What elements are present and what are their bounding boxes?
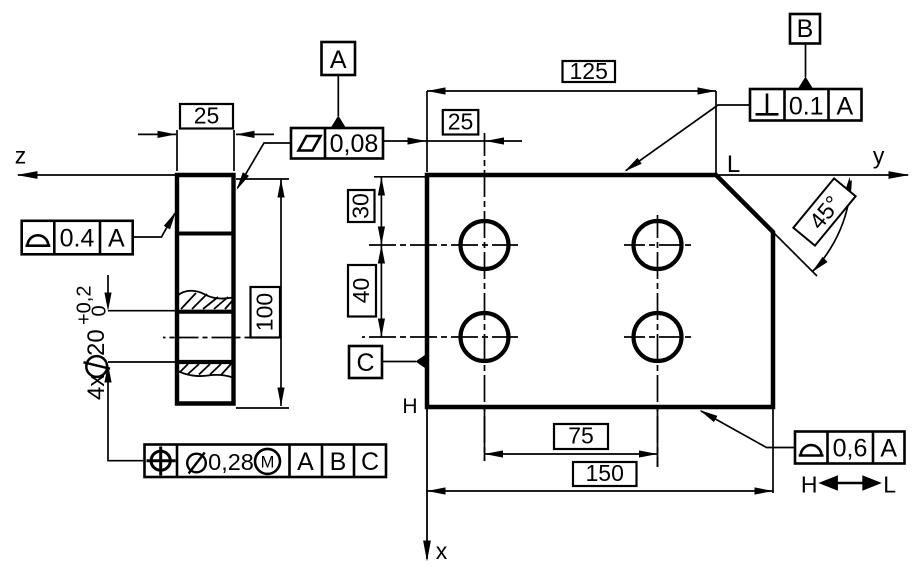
z axis [18, 174, 177, 176]
dim 150 [427, 490, 773, 492]
dim 125 [427, 90, 716, 92]
horizontal centerline row 1 left [368, 244, 518, 246]
hole top-right [634, 221, 682, 269]
dim 25 left view [138, 133, 176, 135]
svg-text:0.1: 0.1 [789, 93, 824, 121]
svg-text:C: C [361, 448, 379, 476]
svg-text:0,6: 0,6 [833, 435, 868, 463]
chamfer extension line [773, 232, 817, 276]
svg-text:125: 125 [570, 58, 608, 84]
svg-text:40: 40 [348, 278, 374, 304]
hole edge upper (section) [177, 310, 234, 314]
svg-text:20: 20 [83, 329, 110, 356]
H - L legend [801, 472, 896, 498]
break line lower (freehand) [177, 371, 233, 378]
datum C leader + triangle on left face of front view [382, 361, 416, 363]
hatching upper band [181, 293, 233, 309]
y axis [716, 174, 908, 176]
svg-text:75: 75 [568, 423, 594, 449]
svg-text:C: C [356, 349, 374, 377]
svg-text:0,28: 0,28 [208, 449, 254, 475]
svg-text:25: 25 [448, 109, 474, 135]
flatness leader to left view right face [238, 143, 292, 188]
svg-text:B: B [330, 448, 347, 476]
left view rectangle outline [177, 175, 234, 404]
svg-text:M: M [261, 454, 275, 472]
svg-text:A: A [836, 93, 853, 121]
x axis [426, 407, 428, 559]
svg-text:150: 150 [586, 460, 624, 486]
svg-text:0.4: 0.4 [60, 225, 95, 253]
svg-text:z: z [15, 143, 27, 169]
profile frame 0,6 A (bottom right) [795, 432, 905, 464]
datum C box [349, 346, 382, 378]
svg-text:B: B [797, 15, 814, 43]
perpendicularity leader to top edge [626, 105, 750, 171]
svg-text:H: H [402, 395, 417, 418]
dim 30 / 40 chain [380, 177, 382, 337]
dim 75 [485, 453, 658, 455]
datum B leader + triangle [805, 44, 807, 78]
position symbol [151, 451, 170, 470]
hole edge extension line lower [108, 361, 177, 363]
hatching lower band [180, 364, 231, 375]
svg-text:L: L [727, 151, 740, 178]
svg-text:0,08: 0,08 [330, 130, 379, 158]
vertical centerline column 2 [657, 215, 659, 467]
svg-text:0: 0 [89, 305, 111, 316]
profile frame 0.4 A (left) [22, 221, 133, 255]
hole edge lower (section) [177, 360, 234, 364]
hole bottom-left [461, 313, 509, 361]
horizontal centerline row 2 right [624, 336, 691, 338]
svg-text:25: 25 [194, 103, 220, 129]
svg-text:y: y [873, 143, 885, 169]
position frame leader [108, 372, 145, 461]
svg-text:A: A [330, 46, 347, 74]
profile 0,6 leader to bottom edge [701, 411, 795, 448]
svg-text:A: A [108, 225, 125, 253]
4x dia20 +0,2/0 callout text (rotated) [74, 286, 111, 400]
45 deg arc [813, 181, 852, 272]
datum A box [322, 42, 356, 75]
position frame [145, 445, 387, 478]
svg-text:L: L [883, 472, 896, 498]
svg-text:30: 30 [348, 193, 374, 219]
svg-text:4x: 4x [83, 375, 110, 400]
svg-text:x: x [436, 538, 448, 564]
dim 25 front view [383, 140, 522, 142]
flatness frame 0,08 [291, 128, 383, 159]
horizontal centerline row 2 left [362, 336, 518, 338]
vertical centerline column 1 [484, 133, 486, 461]
svg-text:A: A [297, 448, 314, 476]
dia 0,28 (M) [187, 454, 206, 473]
45 deg label box (rotated) [793, 178, 855, 245]
left view hole centerline [163, 337, 251, 339]
svg-text:+0,2: +0,2 [74, 286, 96, 325]
hole bottom-right [634, 313, 682, 361]
upper pointer of hole size callout [107, 275, 109, 294]
dim 100 [280, 179, 282, 406]
profile 0.4 leader to left face [133, 213, 175, 237]
datum A leader + triangle [337, 75, 339, 116]
horizontal centerline row 1 right [624, 244, 691, 246]
svg-text:100: 100 [252, 293, 278, 331]
part outline front view with 45-deg chamfer [427, 175, 773, 407]
hole top-left [461, 221, 509, 269]
datum B box [790, 14, 820, 44]
svg-text:A: A [880, 435, 897, 463]
break line upper (freehand) [177, 291, 233, 299]
svg-text:H: H [801, 472, 818, 498]
left view divider edge [177, 232, 234, 236]
hole edge extension line upper [108, 310, 177, 312]
perpendicularity frame 0.1 A [750, 89, 862, 121]
